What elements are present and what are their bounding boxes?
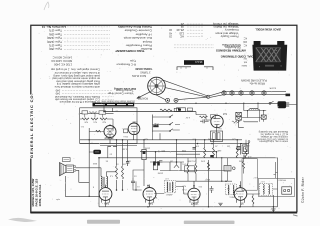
wire: screen rail [80,139,242,141]
solder tags under rectifier [108,145,117,147]
resistor R8 / divider stack [153,163,157,170]
wire: detector feed [176,153,200,155]
i-f transformer T2 (shielded, dashed) [164,181,175,193]
wire: below supply box [100,145,137,147]
resistor R4 (by rectifier) [96,130,102,132]
detector assembly outline [259,178,295,196]
dial-cord diagram: ruler bracket [177,67,213,70]
dial lamp assembly (black) [177,108,186,112]
svg-text:12SK7: 12SK7 [190,202,198,205]
svg-text:Type (57): Type (57) [49,29,62,33]
resistor R12 (vertical) [245,148,247,158]
svg-text:Type (2A6): Type (2A6) [47,36,62,40]
svg-text:600 KC 1400 KC: 600 KC 1400 KC [51,59,72,63]
wire: plate coupling run [176,180,232,182]
wire: screen bus 2 [80,143,242,145]
svg-text:GENERAL ELECTRIC CO.: GENERAL ELECTRIC CO. [29,93,34,158]
svg-text:25M: 25M [182,149,186,151]
wire: plug tail to border [286,104,297,106]
svg-text:Measured with Set operating: Measured with Set operating [258,130,288,133]
svg-text:List Parts No. 41: List Parts No. 41 [41,25,66,29]
power plug P1 [278,101,287,108]
svg-text:35M: 35M [239,160,243,162]
svg-text:(BACK VIEW) MODEL: (BACK VIEW) MODEL [255,28,281,31]
filter capacitor C30 (electrolytic, dark can) [93,150,101,154]
svg-text:2A5: 2A5 [104,201,109,204]
i-f transformer T6 (before r-f tube) [225,184,236,195]
left border gap for edge text [29,95,33,159]
r-f tube V4 (58) [234,188,247,201]
phono jack J1 [282,187,292,194]
pilot lamp block [82,111,88,114]
svg-text:antenna posts: antenna posts [224,45,240,48]
svg-text:250M: 250M [145,147,150,149]
svg-text:1720 KC 1400: 1720 KC 1400 [54,62,72,66]
svg-text:3 TURNS: 3 TURNS [140,70,151,73]
svg-text:©John F. Rider: ©John F. Rider [301,176,305,203]
resistor R9 (vertical) [204,148,206,158]
scan artifact: gray tab left-bottom [8,218,37,222]
svg-text:KC: KC [243,37,247,40]
wire: grid return segment [150,161,184,163]
wire: top rail from heading to power plug [134,102,277,104]
wire: oscillator coil feed [242,111,266,122]
svg-text:TUNING DRUM: TUNING DRUM [135,67,152,70]
trimmer capacitor C10 (boxed X) [261,115,266,119]
wire: B+ rail [104,111,196,113]
wire: oscillator plate run [196,115,211,120]
svg-text:Det. and Audio Ampl.: Det. and Audio Ampl. [123,36,152,40]
output tube V1 (2A5) [99,188,112,201]
power switch S1 on rail [269,102,271,104]
speaker field coil tag [63,158,71,162]
svg-text:Volume Control Hi-gn: Volume Control Hi-gn [107,92,133,96]
wire: AVC bus [140,151,217,153]
svg-text:Type (80): Type (80) [49,47,62,51]
svg-text:115W, 115X CH.: 115W, 115X CH. [38,184,42,206]
svg-text:Converter-Oscillator: Converter-Oscillator [124,29,152,33]
resistor R10 (vertical) [213,148,215,158]
wire: heater bus [99,157,278,159]
scan artifact: gray bar 1 [87,220,120,224]
svg-text:25L6: 25L6 [132,121,138,123]
svg-text:3.3M: 3.3M [122,148,127,150]
rectifier tube V6 (25Z6) [104,126,116,138]
loop antenna L1 (spiral) [241,143,249,154]
i-f transformer T2 windings [166,182,169,192]
svg-text:KC: KC [243,44,247,47]
wire: tube stems to ground bus [102,181,245,207]
ground symbol (center) [218,203,222,205]
oscillator tube V2 (6A8) [211,115,223,127]
svg-text:2M: 2M [227,145,230,147]
i-f tube V3 (58) [188,188,200,200]
svg-text:6SQ7: 6SQ7 [204,178,210,180]
svg-text:AVC: AVC [152,196,157,199]
wire: volume control feed [160,170,230,172]
svg-text:1W: 1W [123,163,126,165]
scan artifact: gray bar 2 [184,221,235,224]
dial-cord diagram: idler pulley at apex [207,95,210,98]
padder capacitor C8 (boxed X, stacked) [236,116,242,120]
wire: T2/T3 leads [154,187,277,194]
resistor R22 [100,118,107,120]
resistor R11 (vertical) [236,148,238,158]
dial-cord diagram: pulleys [222,91,226,95]
antenna terminal strip (dark) [237,147,241,149]
dial-cord diagram: pointer arm [137,92,150,99]
svg-text:250M: 250M [158,171,163,173]
svg-text:Type (57): Type (57) [49,44,62,48]
svg-text:POINTER: POINTER [137,97,148,99]
trimmer row by oscillator [244,103,260,122]
volume control R17 (potentiometer) [174,165,179,168]
svg-text:.1MF: .1MF [217,149,222,151]
resistor R21 [91,118,98,120]
switch S2: contact arrows [170,115,174,131]
svg-text:47M: 47M [201,160,205,162]
resistor R13 (on AVC drop) [208,163,210,170]
dial-cord diagram: pulleys under drum [166,98,170,102]
svg-text:Phono Preamplifier: Phono Preamplifier [126,44,152,48]
svg-text:wave: wave [241,64,247,66]
svg-text:6A8: 6A8 [222,112,227,115]
svg-text:36 1/4: 36 1/4 [195,60,203,64]
cabinet pictorial: radio cabinet rear view [252,41,287,71]
wire: audio coupling [133,170,144,190]
output tube V5 (25L6) [128,123,140,135]
grid cap leads on tubes [147,185,241,188]
svg-text:Type (2A5): Type (2A5) [47,40,62,44]
svg-text:PULLEYS ARE SHOWN: PULLEYS ARE SHOWN [241,78,267,81]
resistor R19 on B+ rail [160,109,172,111]
rail junction dots [225,103,226,104]
capacitor C5 (between tubes) [124,129,128,133]
svg-text:140 KC 600 KC: 140 KC 600 KC [53,55,72,59]
wire: switch to oscillator run [153,125,181,140]
dial-cord diagram: tension spring anchor [286,94,291,97]
ground symbol (chassis, right) [271,209,275,212]
svg-text:spkr: spkr [56,198,60,201]
padder capacitor C7 (boxed X, stacked) [236,112,242,116]
svg-text:Power Supply: Power Supply [220,34,238,38]
resistor R6 (vertical, cathode) [122,166,124,179]
svg-text:Output: Output [143,40,152,44]
svg-text:FROM No 40s: FROM No 40s [249,82,265,85]
capacitor C6 (osc grid) [200,119,209,123]
svg-text:1M: 1M [170,159,173,161]
loudspeaker SP (pictorial) [60,163,67,176]
i-f transformer T3 (shielded, dashed) [260,183,273,195]
wire: antenna lead [244,142,249,157]
switch S2: selector stack frame [153,115,170,132]
i-f transformer T3 windings [263,185,264,195]
antenna terminal [248,141,250,143]
resistor R15 (vertical above i-f tube) [187,164,189,174]
svg-text:25Z6GT: 25Z6GT [104,136,114,139]
wire: rectifier cathode drop [89,128,133,196]
dial-cord diagram: cord triangle to idler [156,80,208,100]
svg-text:OSC: OSC [217,127,222,129]
svg-text:TUBE COMPLEMENT: TUBE COMPLEMENT [115,49,144,53]
scan artifact: corner tick [293,215,298,216]
svg-text:Sockets shown from bottom view: Sockets shown from bottom view [101,100,135,103]
wire: stub above audio tube [135,181,137,190]
svg-text:IDLER: IDLER [269,87,276,89]
cathode resistor R18 [252,196,254,204]
wire: i-f screen drop [196,140,222,181]
resistor R16 (vertical above i-f tube) [195,164,197,174]
coupling condenser block C14 (above audio tube) [153,161,156,165]
svg-text:6.3V: 6.3V [185,116,190,118]
coupling capacitor C15 [131,178,135,186]
svg-text:Type: Type [129,59,136,63]
schematic section heading bar (white-on-black, upside-down) [93,103,135,107]
wire: speaker return [65,195,99,197]
resistor R7 (plate load, boxed) [142,150,146,160]
svg-text:Tuning Drive Assembly: Tuning Drive Assembly [118,25,152,29]
svg-text:175KC: 175KC [229,195,236,197]
oscillator coil L2 (horizontal) [250,108,258,109]
wire: loop to assembly [244,155,278,179]
svg-text:2A6: 2A6 [148,201,153,204]
wire: speaker to output transformer [65,168,116,197]
page border frame [31,25,297,213]
svg-text:50M: 50M [208,138,212,140]
svg-text:1M: 1M [227,187,230,189]
svg-text:BACK PLATE: BACK PLATE [132,74,146,77]
svg-text:until maximum output is obtain: until maximum output is obtained here [54,85,100,89]
audio tube V2a (2A6) [143,188,156,201]
i-f transformer can T5 (below oscillator) [211,131,223,142]
svg-text:meter or vac. tube voltmeter.: meter or vac. tube voltmeter. [259,140,288,143]
svg-text:PHONO: PHONO [278,179,286,181]
loop antenna assembly outline [242,159,257,191]
resistor R5 (vertical, AF grid) [116,166,118,179]
svg-text:VOLUME: VOLUME [187,160,196,162]
faint pencil mark top margin [44,2,49,10]
svg-text:AC: AC [180,34,184,38]
tone capacitor C16 [159,161,162,163]
resistor R24 (plate feed) [200,116,208,118]
svg-text:R-C Resistance: R-C Resistance [116,62,136,66]
svg-text:460KC: 460KC [165,193,172,195]
oscillator coupling box [224,166,231,172]
output transformer T4 windings (above output tube) [101,176,102,187]
svg-text:Type (58): Type (58) [49,32,62,36]
svg-text:ant: ant [243,61,247,64]
svg-text:I-F Amplifier: I-F Amplifier [135,32,152,36]
resistor R20 (ballast chain) [82,118,89,120]
wire: chassis ground bus [99,206,278,208]
resistor R14 (grid leak to r-f tube) [243,162,245,169]
svg-text:DIAL CORD STRINGING: DIAL CORD STRINGING [220,55,254,59]
dial-cord diagram: tuning drum [148,77,166,95]
dial-cord diagram: cord to pulley row [210,92,287,98]
dial-cord diagram: cord length label (black box) [184,60,204,65]
svg-text:ANTENNA READINGS: ANTENNA READINGS [216,49,246,53]
svg-text:8MF: 8MF [92,162,97,164]
wire: vertical drops left/middle [99,103,278,211]
capacitor C12 (vertical) [126,160,129,166]
bypass capacitor C18 [210,186,214,193]
scan speckle noise [33,27,295,210]
power supply enclosure box [80,108,137,144]
wire: filament string [80,114,114,131]
junction dots [103,111,105,113]
